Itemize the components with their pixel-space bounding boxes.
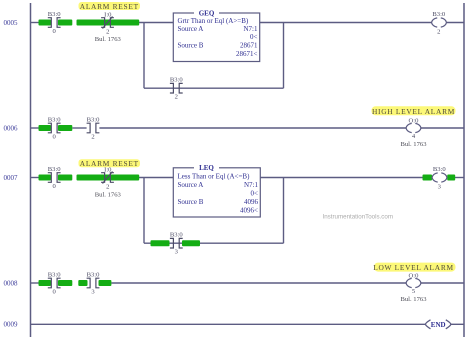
- wire rung 0006: rail to contacts: [31, 127, 40, 129]
- svg-text:B3:0: B3:0: [48, 166, 62, 173]
- wire rung 0009: rail to END: [31, 323, 426, 325]
- svg-text:4096: 4096: [244, 198, 259, 206]
- svg-text:END: END: [431, 321, 446, 329]
- svg-text:0: 0: [53, 28, 57, 35]
- svg-text:0: 0: [53, 289, 57, 296]
- svg-text:Bul. 1763: Bul. 1763: [400, 141, 427, 148]
- power rail highlight rung 0006 (green): [39, 125, 73, 131]
- wire rung 0005: GEQ block to coil: [260, 22, 432, 24]
- value label Bul. 1763 rung 0005: [95, 36, 122, 43]
- right power rail: [463, 3, 465, 337]
- svg-text:I:0: I:0: [104, 12, 112, 19]
- svg-text:3: 3: [438, 183, 442, 190]
- label ALARM RESET rung 0007: [79, 159, 141, 168]
- wire rung 0007: rail to contacts: [31, 177, 40, 179]
- wire rung 0005: coil to rail: [447, 22, 464, 24]
- value label Bul. 1763 rung 0006: [400, 141, 427, 148]
- contact B3:0/2 (XIC) branch rung 0005: [170, 77, 184, 101]
- power rail highlight rung 0005 (green): [39, 20, 140, 26]
- END coil rung 0009: [426, 320, 451, 329]
- label HIGH LEVEL ALARM rung 0006: [372, 106, 456, 116]
- svg-text:Less Than or Eql (A<=B): Less Than or Eql (A<=B): [178, 172, 251, 180]
- svg-text:2: 2: [106, 29, 109, 36]
- wire rung 0006: contacts to coil: [99, 127, 406, 129]
- branch wire rung 0005 (parallel around GEQ): [144, 23, 284, 89]
- wire rung 0008: coil to rail: [421, 282, 464, 284]
- svg-text:4: 4: [412, 133, 416, 140]
- label LOW LEVEL ALARM rung 0008: [373, 263, 455, 273]
- svg-text:B3:0: B3:0: [48, 117, 62, 124]
- svg-text:Source A: Source A: [178, 25, 204, 33]
- svg-text:2: 2: [175, 94, 178, 101]
- rung number 0008: [4, 279, 19, 287]
- contact I:0/2 (XIO) rung 0007: [101, 167, 114, 191]
- svg-text:Bul. 1763: Bul. 1763: [95, 36, 122, 43]
- svg-text:O:0: O:0: [409, 272, 420, 279]
- power rail highlight rung 0008 (green): [39, 280, 112, 286]
- contact B3:0/0 (XIC) rung 0005: [48, 11, 62, 35]
- value label Bul. 1763 rung 0007: [95, 191, 122, 198]
- contact B3:0/0 (XIC) rung 0007: [48, 166, 62, 190]
- svg-text:4096<: 4096<: [240, 207, 258, 215]
- branch wire rung 0007 (parallel around LEQ): [144, 178, 284, 244]
- contact B3:0/3 (XIC) branch rung 0007: [170, 232, 184, 256]
- svg-text:B3:0: B3:0: [170, 77, 184, 84]
- svg-text:2: 2: [437, 29, 440, 36]
- svg-text:3: 3: [175, 249, 179, 256]
- svg-text:0005: 0005: [4, 19, 19, 27]
- svg-text:0<: 0<: [250, 33, 258, 41]
- contact B3:0/0 (XIC) rung 0008: [48, 272, 62, 296]
- svg-text:Source A: Source A: [178, 181, 204, 189]
- svg-text:0: 0: [53, 134, 57, 141]
- rung number 0005: [4, 19, 19, 27]
- wire rung 0005: contacts to GEQ block: [139, 22, 173, 24]
- wire rung 0006: coil to rail: [421, 127, 464, 129]
- svg-text:B3:0: B3:0: [170, 232, 184, 239]
- contact B3:0/2 (XIC) rung 0006: [87, 117, 101, 141]
- svg-text:0007: 0007: [4, 174, 19, 182]
- svg-text:LOW LEVEL ALARM: LOW LEVEL ALARM: [373, 263, 454, 272]
- svg-text:5: 5: [412, 288, 416, 295]
- svg-text:2: 2: [106, 184, 109, 191]
- svg-text:0<: 0<: [251, 189, 259, 197]
- svg-text:InstrumentationTools.com: InstrumentationTools.com: [323, 213, 394, 220]
- wire rung 0008: contacts to coil: [111, 282, 406, 284]
- contact B3:0/3 (XIC) rung 0008: [87, 272, 101, 296]
- svg-text:B3:0: B3:0: [87, 272, 101, 279]
- svg-text:0: 0: [53, 183, 57, 190]
- rung number 0006: [4, 124, 19, 132]
- svg-text:O:0: O:0: [409, 117, 420, 124]
- coil B3:0/2 (OTE) rung 0005: [432, 11, 447, 35]
- svg-text:ALARM RESET: ALARM RESET: [80, 2, 139, 11]
- wire rung 0007: coil to rail: [455, 177, 464, 179]
- svg-text:Bul. 1763: Bul. 1763: [95, 191, 122, 198]
- svg-text:HIGH LEVEL ALARM: HIGH LEVEL ALARM: [372, 107, 455, 116]
- svg-text:B3:0: B3:0: [433, 166, 447, 173]
- svg-text:Source B: Source B: [178, 41, 204, 49]
- wire rung 0005: rail to contacts: [31, 22, 40, 24]
- comparator block LEQ rung 0007: [173, 164, 260, 217]
- wire rung 0008: rail to contacts: [31, 282, 40, 284]
- svg-text:Grtr Than or Eql (A>=B): Grtr Than or Eql (A>=B): [178, 17, 249, 25]
- coil O:0/4 (OTE) rung 0006: [406, 117, 421, 139]
- svg-text:0009: 0009: [4, 321, 19, 329]
- svg-text:B3:0: B3:0: [48, 11, 62, 18]
- value label Bul. 1763 rung 0008: [400, 296, 427, 303]
- svg-text:Source B: Source B: [178, 198, 204, 206]
- rung number 0007: [4, 174, 19, 182]
- coil O:0/5 (OTE) rung 0008: [406, 272, 421, 295]
- wire rung 0009: END to rail: [451, 323, 464, 325]
- svg-text:2: 2: [91, 134, 94, 141]
- comparator block GEQ rung 0005: [173, 9, 259, 61]
- svg-text:0006: 0006: [4, 124, 19, 132]
- svg-text:B3:0: B3:0: [432, 11, 446, 18]
- svg-text:Bul. 1763: Bul. 1763: [400, 296, 427, 303]
- wire rung 0007: contacts to LEQ block: [139, 177, 173, 179]
- svg-text:0008: 0008: [4, 279, 19, 287]
- power rail highlight at coil rung 0007 (green): [423, 175, 456, 181]
- svg-text:N7:1: N7:1: [244, 25, 259, 33]
- svg-text:28671<: 28671<: [236, 50, 258, 58]
- svg-text:I:0: I:0: [104, 167, 112, 174]
- contact I:0/2 (XIO) rung 0005: [101, 12, 114, 36]
- power rail highlight branch rung 0007 (green): [151, 240, 201, 246]
- left power rail: [30, 3, 32, 337]
- svg-text:LEQ: LEQ: [199, 164, 214, 172]
- svg-text:B3:0: B3:0: [48, 272, 62, 279]
- svg-text:B3:0: B3:0: [87, 117, 101, 124]
- wire rung 0006: between contacts: [72, 127, 86, 129]
- coil B3:0/3 (OTE) rung 0007: [432, 166, 447, 190]
- contact B3:0/0 (XIC) rung 0006: [48, 117, 62, 141]
- power rail highlight rung 0007 (green): [39, 175, 140, 181]
- svg-text:28671: 28671: [240, 41, 258, 49]
- watermark InstrumentationTools.com: [323, 213, 394, 220]
- label ALARM RESET rung 0005: [79, 2, 141, 11]
- svg-text:3: 3: [91, 289, 95, 296]
- rung number 0009: [4, 321, 19, 329]
- svg-text:N7:1: N7:1: [244, 181, 259, 189]
- wire rung 0007: LEQ block to coil: [260, 177, 423, 179]
